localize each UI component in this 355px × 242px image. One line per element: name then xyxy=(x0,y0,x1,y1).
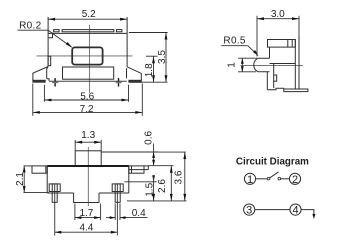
dimension 3.6 xyxy=(127,152,187,201)
lower column xyxy=(267,64,284,90)
svg-text:3.6: 3.6 xyxy=(173,170,184,184)
top plate center bar xyxy=(62,30,114,32)
svg-text:4: 4 xyxy=(292,205,298,217)
wire pin3 to pin4 xyxy=(255,209,290,211)
svg-text:R0.5: R0.5 xyxy=(223,36,245,47)
svg-text:2.6: 2.6 xyxy=(157,179,168,193)
svg-text:5.2: 5.2 xyxy=(82,9,96,20)
right bottom terminal tab xyxy=(116,78,122,86)
dimension 1 (button height) xyxy=(226,58,257,72)
bottom terminal bar xyxy=(284,88,308,91)
body top thick line xyxy=(47,165,129,167)
centerline horizontal front view xyxy=(37,55,133,57)
dimension 7.2 xyxy=(33,84,143,116)
left bottom terminal tab xyxy=(52,78,58,86)
switch left contact xyxy=(267,177,270,180)
svg-text:0.6: 0.6 xyxy=(143,131,154,145)
body left notch step xyxy=(48,33,52,38)
bottom bump xyxy=(74,193,99,203)
switch right contact xyxy=(278,177,281,180)
dimension 1.5 xyxy=(124,175,156,201)
svg-text:3.5: 3.5 xyxy=(157,50,168,64)
top plate left tab xyxy=(54,30,60,32)
left peg xyxy=(49,184,60,202)
cover right side xyxy=(295,36,299,89)
dimension 4.4 xyxy=(55,204,118,236)
dimension 5.6 xyxy=(44,85,128,103)
bump top (button from top) xyxy=(75,151,101,166)
svg-text:3: 3 xyxy=(246,205,252,217)
wire pin1 to contact xyxy=(256,178,268,180)
dimension 2.1 xyxy=(15,166,49,193)
dimension 2.6 xyxy=(148,166,173,201)
head block xyxy=(270,47,296,63)
dimension 0.4 xyxy=(106,204,148,221)
svg-text:1.3: 1.3 xyxy=(81,130,95,141)
left leg xyxy=(33,67,49,81)
svg-text:Circuit Diagram: Circuit Diagram xyxy=(236,156,309,167)
button front view xyxy=(72,47,102,64)
svg-text:2.1: 2.1 xyxy=(15,172,26,186)
svg-text:7.2: 7.2 xyxy=(80,104,94,115)
dimension 3.5 xyxy=(129,33,168,83)
body outline xyxy=(47,166,129,193)
top plate baseline xyxy=(48,32,127,34)
right foot pad xyxy=(129,80,141,82)
body left wall xyxy=(47,17,49,67)
dimension 0.6 xyxy=(101,131,158,166)
svg-text:0.4: 0.4 xyxy=(132,208,146,219)
left flange xyxy=(32,166,47,173)
dimension 1.8 xyxy=(144,56,157,82)
label R0.2 xyxy=(18,20,73,47)
bottom seating line xyxy=(49,80,127,82)
pin 4 xyxy=(290,204,301,217)
dimension 1.3 xyxy=(75,130,101,151)
right flange xyxy=(129,166,149,173)
pin 3 xyxy=(244,204,255,217)
cover top band xyxy=(268,40,296,48)
svg-text:1: 1 xyxy=(226,62,237,68)
left side contact box xyxy=(48,56,51,65)
dimension 5.2 xyxy=(48,9,127,21)
pin 2 xyxy=(289,173,300,186)
top plate right tab xyxy=(117,30,122,32)
centerline vertical front view xyxy=(88,25,90,93)
base rectangle xyxy=(63,67,114,79)
pin 1 xyxy=(244,173,255,186)
right peg xyxy=(112,184,123,202)
left foot pad xyxy=(33,80,45,82)
button side view xyxy=(254,58,270,72)
svg-text:1: 1 xyxy=(247,174,253,186)
centerline vertical bottom view xyxy=(87,147,89,206)
wire contact to pin 2 xyxy=(281,178,290,180)
wire pin4 tail with arrow xyxy=(301,210,315,219)
peg centerlines (4.4 extension) xyxy=(55,185,118,205)
dimension 3.0 xyxy=(257,9,299,57)
svg-text:1.5: 1.5 xyxy=(145,182,156,196)
right leg xyxy=(127,67,142,80)
svg-text:2: 2 xyxy=(292,174,298,186)
dimension 1.7 xyxy=(75,204,101,221)
body right wall xyxy=(126,17,128,67)
label R0.5 xyxy=(221,36,258,56)
switch arm xyxy=(270,172,279,178)
centerline horizontal side view xyxy=(241,64,303,66)
svg-text:1.8: 1.8 xyxy=(144,63,155,77)
svg-text:5.6: 5.6 xyxy=(80,92,94,103)
circuit diagram title xyxy=(236,156,309,167)
